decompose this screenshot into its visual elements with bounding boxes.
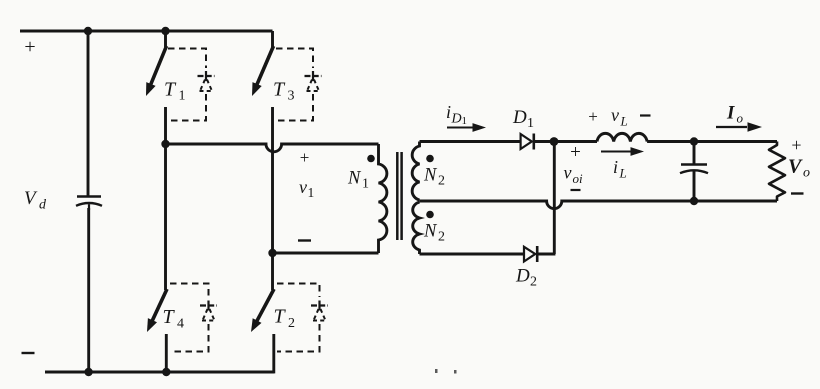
svg-text:oi: oi (573, 171, 584, 186)
wire D2 cathode to junction riser (537, 253, 555, 256)
svg-text:T: T (274, 306, 287, 328)
wire bottom dc rail (45, 371, 274, 374)
wire secondary bottom to D2 (420, 253, 525, 256)
svg-text:D: D (512, 107, 527, 128)
label iD1 (446, 102, 451, 122)
label T2 (274, 306, 287, 328)
svg-text:D: D (515, 266, 530, 287)
node B leg2 primary junction (268, 249, 276, 257)
wire leg2 middle vertical (271, 107, 274, 290)
label - (voi minus) (571, 189, 581, 191)
label vL (611, 105, 619, 125)
wire capacitor bottom stub (693, 172, 696, 202)
node capacitor top junction (690, 137, 698, 145)
svg-text:T: T (164, 79, 177, 101)
label N1 (347, 169, 362, 189)
wire top dc rail (20, 30, 273, 33)
svg-text:v: v (611, 105, 619, 125)
transformer secondary winding N2 top (412, 142, 419, 201)
wire rectifier junction vertical (553, 142, 556, 255)
svg-text:2: 2 (288, 316, 295, 331)
transistor T1 switch blade (150, 46, 167, 87)
node A leg1 midpoint (161, 140, 169, 148)
svg-text:1: 1 (308, 185, 315, 200)
polarity dot N1 (367, 155, 375, 163)
label T4 (163, 306, 176, 328)
wire D1 cathode to inductor (534, 140, 597, 143)
wire left vertical Vd lower (87, 208, 90, 372)
label T3 (273, 79, 286, 101)
arrow iL current (601, 151, 634, 153)
capacitor Cd dc-link (77, 195, 101, 198)
node bottom-left junction (84, 368, 92, 376)
node leg1 top junction (161, 27, 169, 35)
svg-text:+: + (570, 142, 581, 163)
label D1 (512, 107, 527, 128)
svg-text:1: 1 (462, 115, 468, 127)
polarity dot N2 bottom (426, 211, 434, 219)
capacitor Cf output filter (681, 163, 707, 166)
label + (voi plus) (570, 142, 581, 163)
label N2 top (423, 166, 438, 186)
svg-text:o: o (737, 111, 744, 126)
svg-text:+: + (300, 148, 310, 167)
diode DT3 antiparallel dashed symbol (305, 75, 322, 77)
wire left vertical Vd upper (87, 31, 90, 196)
svg-text:v: v (299, 177, 307, 197)
label N2 bottom (423, 222, 438, 242)
svg-text:L: L (619, 166, 627, 181)
scan speck marks (435, 369, 438, 373)
diode DT1 antiparallel dashed symbol (198, 75, 215, 77)
svg-text:2: 2 (438, 174, 445, 189)
label v1 (299, 177, 307, 197)
wire node A to primary with hop over leg2 (166, 144, 379, 152)
label - (v1 minus) (298, 239, 311, 241)
label iL (613, 157, 618, 177)
wire leg1 top stub (164, 31, 167, 47)
transformer secondary winding N2 bottom (413, 202, 420, 254)
node capacitor bottom junction (690, 197, 698, 205)
svg-text:1: 1 (362, 177, 369, 192)
wire capacitor top stub (693, 142, 696, 165)
label voi (564, 163, 572, 183)
node leg1 bottom junction (162, 368, 170, 376)
diode D1 (521, 134, 532, 149)
svg-text:v: v (564, 163, 572, 183)
transformer primary winding N1 (379, 144, 387, 253)
svg-text:2: 2 (530, 275, 537, 290)
label + (Vo plus) (791, 135, 801, 155)
diode DT2 antiparallel box dashed (277, 284, 320, 298)
diode DT2 antiparallel dashed symbol (311, 304, 328, 306)
svg-text:T: T (163, 306, 176, 328)
diode DT1 antiparallel box dashed (168, 49, 206, 69)
transistor T2 switch blade (256, 289, 274, 323)
wire inductor to load (647, 140, 777, 143)
svg-text:T: T (273, 79, 286, 101)
svg-text:2: 2 (438, 230, 445, 245)
wire secondary top to D1 (420, 140, 521, 143)
label T1 (164, 79, 177, 101)
label - (Vd negative) (22, 352, 35, 354)
resistor Ro load (769, 142, 785, 202)
node top-left junction (84, 27, 92, 35)
svg-text:o: o (803, 166, 810, 181)
label + (v1 plus) (300, 148, 310, 167)
svg-text:i: i (446, 102, 451, 122)
diode DT4 antiparallel box dashed (170, 284, 209, 298)
label Io (726, 103, 735, 124)
svg-text:3: 3 (288, 89, 295, 104)
wire leg1 bottom stub (165, 334, 168, 372)
wire center tap to output return with hop (420, 201, 778, 209)
transistor T3 switch blade (256, 46, 274, 87)
svg-text:N: N (423, 222, 438, 242)
svg-text:L: L (620, 114, 628, 129)
diode DT3 antiparallel box dashed (276, 49, 313, 69)
svg-text:+: + (791, 135, 801, 155)
diode D2 (524, 247, 535, 262)
svg-text:+: + (588, 107, 598, 126)
svg-text:4: 4 (177, 317, 184, 332)
svg-text:N: N (423, 166, 438, 186)
svg-text:1: 1 (527, 116, 534, 131)
label D2 (515, 266, 530, 287)
label - (Vo minus) (791, 192, 804, 194)
label + (vL plus) (588, 107, 598, 126)
svg-text:i: i (613, 157, 618, 177)
svg-text:D: D (451, 112, 462, 127)
label Vd (24, 188, 38, 209)
wire leg2 top corner (271, 31, 274, 47)
label + (Vd positive) (24, 36, 35, 58)
svg-text:V: V (788, 156, 803, 178)
polarity dot N2 top (426, 155, 434, 163)
inductor Lf output filter (597, 133, 647, 141)
svg-text:d: d (39, 198, 47, 213)
arrow iD1 current (447, 127, 475, 129)
svg-text:1: 1 (179, 89, 186, 104)
transistor T4 switch blade (151, 289, 167, 323)
transformer core (396, 152, 399, 240)
label - (vL minus) (640, 114, 651, 116)
svg-text:N: N (347, 169, 362, 189)
node rectifier output junction (550, 137, 559, 146)
diode DT4 antiparallel dashed symbol (200, 304, 217, 306)
wire primary bottom to node B (273, 252, 379, 255)
svg-text:I: I (726, 103, 735, 124)
wire leg1 middle vertical (164, 107, 167, 290)
svg-text:+: + (24, 36, 35, 58)
arrow Io current (716, 126, 747, 128)
label Vo (788, 156, 803, 178)
wire leg2 bottom stub (272, 334, 275, 373)
